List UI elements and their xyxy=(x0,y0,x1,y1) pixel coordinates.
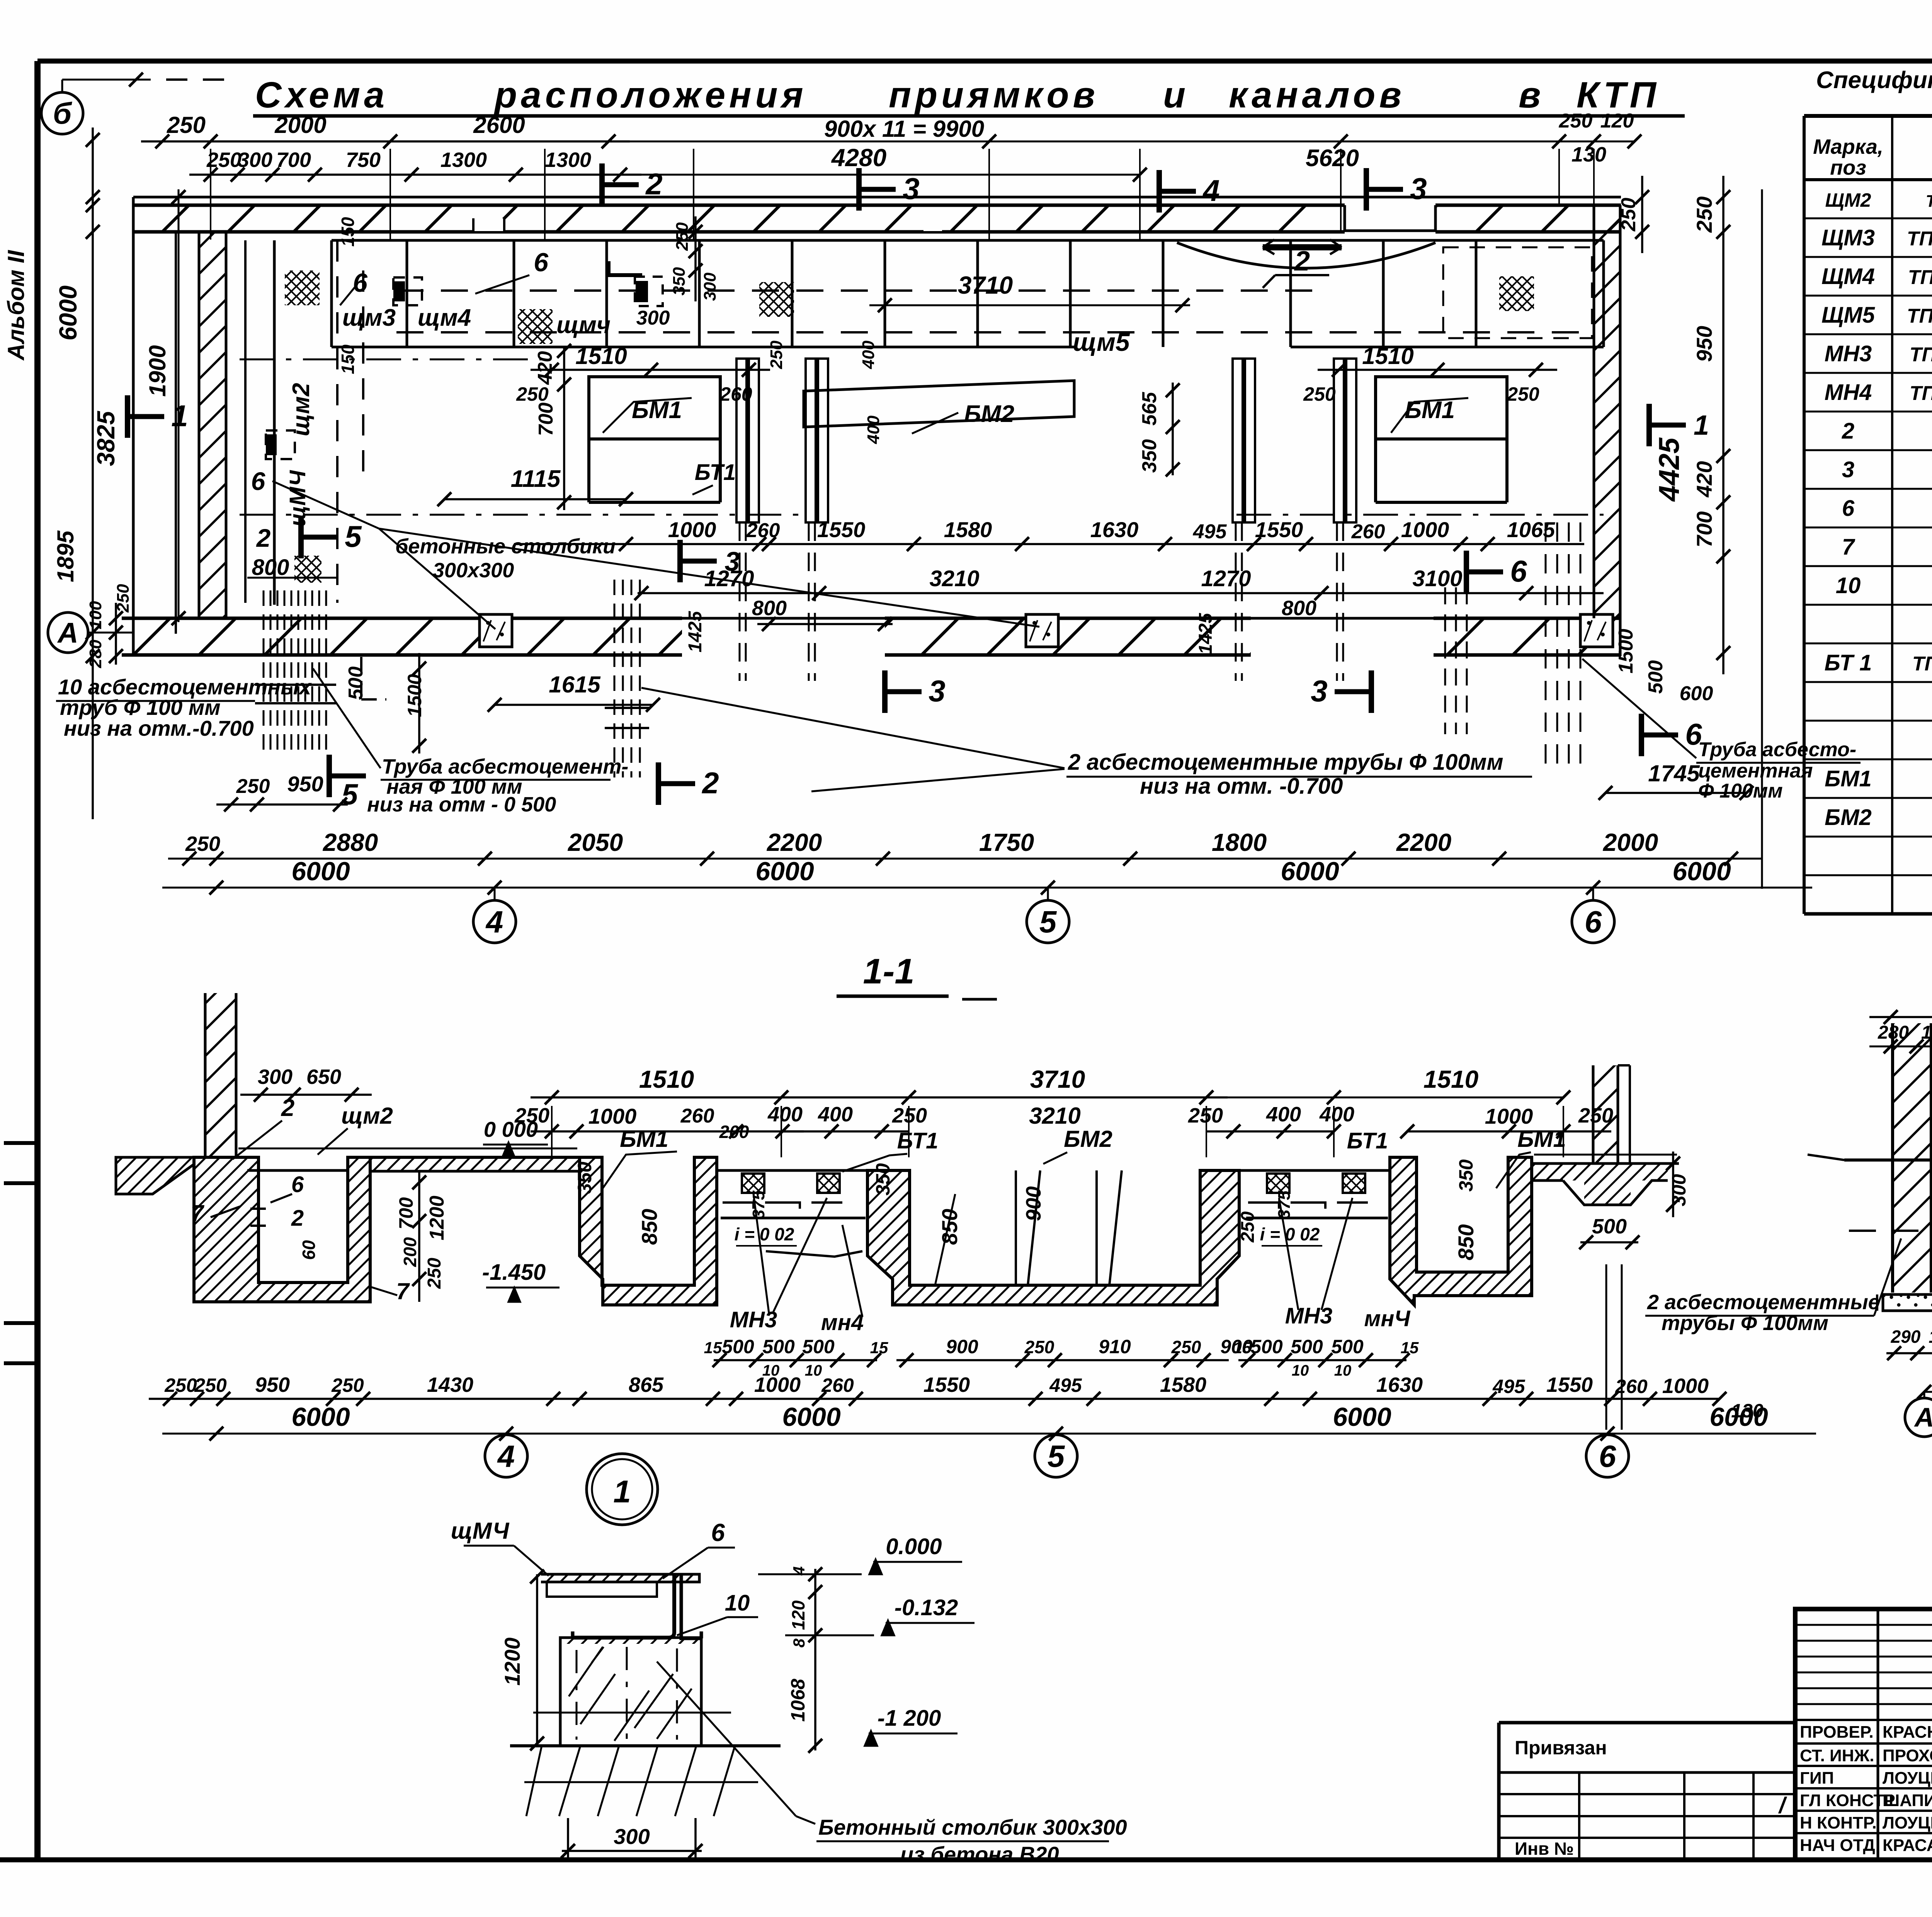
svg-text:250: 250 xyxy=(1171,1337,1201,1357)
svg-text:ЩМ2: ЩМ2 xyxy=(1825,189,1871,211)
svg-text:110: 110 xyxy=(1929,1327,1932,1347)
svg-text:850: 850 xyxy=(637,1209,662,1245)
svg-text:2200: 2200 xyxy=(1396,828,1451,856)
svg-text:260: 260 xyxy=(1615,1376,1648,1397)
svg-text:800: 800 xyxy=(252,555,289,580)
svg-text:500: 500 xyxy=(1250,1336,1283,1357)
svg-text:150: 150 xyxy=(338,344,358,374)
svg-text:6000: 6000 xyxy=(755,857,814,886)
svg-text:щм2: щм2 xyxy=(288,383,315,436)
svg-text:250: 250 xyxy=(331,1374,364,1396)
svg-text:ПРОВЕР.: ПРОВЕР. xyxy=(1800,1723,1874,1742)
svg-text:-1 200: -1 200 xyxy=(878,1706,941,1731)
svg-text:ЩМ4: ЩМ4 xyxy=(1821,264,1875,289)
svg-text:15: 15 xyxy=(1401,1339,1419,1357)
svg-text:300х300: 300х300 xyxy=(433,559,514,582)
svg-text:4: 4 xyxy=(1202,173,1219,208)
svg-text:3210: 3210 xyxy=(929,566,979,591)
svg-text:в: в xyxy=(1519,75,1541,116)
svg-text:700: 700 xyxy=(395,1197,417,1230)
svg-text:б: б xyxy=(53,96,72,130)
svg-text:4425: 4425 xyxy=(1653,437,1685,502)
svg-text:3710: 3710 xyxy=(958,271,1013,299)
svg-text:400: 400 xyxy=(818,1103,853,1126)
svg-text:КРАСАВИН: КРАСАВИН xyxy=(1883,1836,1932,1855)
svg-text:ГЛ КОНСТР: ГЛ КОНСТР xyxy=(1800,1791,1895,1810)
svg-text:щм3: щм3 xyxy=(342,304,396,331)
svg-text:цементная: цементная xyxy=(1698,760,1813,782)
svg-text:900: 900 xyxy=(1022,1186,1045,1221)
svg-text:и: и xyxy=(1163,75,1185,116)
svg-text:250: 250 xyxy=(1188,1104,1223,1127)
svg-text:250: 250 xyxy=(236,775,270,798)
svg-text:500: 500 xyxy=(345,667,367,700)
svg-text:350: 350 xyxy=(574,1162,595,1194)
svg-text:100: 100 xyxy=(86,601,105,629)
svg-text:ТП 902-9-40 86 КЖН БТ1: ТП 902-9-40 86 КЖН БТ1 xyxy=(1912,653,1932,675)
svg-text:низ на отм - 0 500: низ на отм - 0 500 xyxy=(367,793,556,816)
svg-text:420: 420 xyxy=(1692,461,1716,497)
svg-text:1550: 1550 xyxy=(1255,517,1303,542)
svg-text:300: 300 xyxy=(258,1065,293,1089)
svg-text:120: 120 xyxy=(788,1600,808,1630)
svg-text:2 асбестоцементные трубы Ф 100: 2 асбестоцементные трубы Ф 100мм xyxy=(1068,750,1503,775)
svg-text:350: 350 xyxy=(872,1163,894,1196)
svg-text:3: 3 xyxy=(1410,172,1427,206)
svg-text:2880: 2880 xyxy=(323,828,378,856)
svg-text:1425: 1425 xyxy=(685,611,706,652)
svg-text:0.000: 0.000 xyxy=(886,1534,942,1559)
svg-text:щм2: щм2 xyxy=(341,1103,393,1129)
svg-text:мн4: мн4 xyxy=(821,1310,864,1335)
svg-text:200: 200 xyxy=(719,1122,749,1142)
svg-text:БМ2: БМ2 xyxy=(964,401,1014,427)
svg-text:из бетона В20: из бетона В20 xyxy=(900,1842,1059,1866)
svg-text:5: 5 xyxy=(342,778,359,811)
svg-text:5620: 5620 xyxy=(1306,145,1359,172)
svg-text:260: 260 xyxy=(821,1374,854,1396)
svg-text:250: 250 xyxy=(516,383,549,405)
svg-text:1630: 1630 xyxy=(1090,517,1139,542)
svg-text:250: 250 xyxy=(194,1374,227,1396)
svg-text:1750: 1750 xyxy=(979,828,1034,856)
svg-text:700: 700 xyxy=(1692,511,1716,547)
svg-text:500: 500 xyxy=(1331,1336,1364,1357)
svg-text:приямков: приямков xyxy=(889,75,1099,116)
svg-text:5: 5 xyxy=(1048,1439,1065,1473)
svg-text:250: 250 xyxy=(1238,1211,1258,1243)
svg-text:750: 750 xyxy=(346,148,381,172)
svg-text:1510: 1510 xyxy=(1362,343,1413,369)
svg-text:850: 850 xyxy=(937,1209,962,1245)
svg-text:1000: 1000 xyxy=(1662,1374,1709,1398)
svg-text:6: 6 xyxy=(291,1172,304,1197)
svg-text:200: 200 xyxy=(400,1237,420,1267)
svg-text:1900: 1900 xyxy=(145,345,170,396)
svg-text:260: 260 xyxy=(1351,520,1385,543)
svg-text:150: 150 xyxy=(338,217,358,247)
svg-text:6000: 6000 xyxy=(782,1402,840,1432)
svg-text:1200: 1200 xyxy=(500,1638,524,1686)
svg-text:400: 400 xyxy=(1266,1103,1301,1126)
svg-text:А: А xyxy=(57,617,78,649)
svg-text:1: 1 xyxy=(1694,410,1709,441)
svg-text:БМ2: БМ2 xyxy=(1825,805,1872,830)
svg-text:7: 7 xyxy=(1842,534,1855,560)
svg-text:1000: 1000 xyxy=(668,517,716,542)
svg-text:350: 350 xyxy=(1455,1159,1477,1192)
svg-text:-0.132: -0.132 xyxy=(895,1595,958,1620)
svg-text:2: 2 xyxy=(1294,246,1310,277)
svg-text:500: 500 xyxy=(722,1336,754,1357)
svg-text:4: 4 xyxy=(497,1439,515,1473)
svg-text:МН4: МН4 xyxy=(1825,380,1872,405)
svg-text:15: 15 xyxy=(870,1339,888,1357)
svg-text:5: 5 xyxy=(1039,905,1057,939)
svg-text:495: 495 xyxy=(1193,520,1227,543)
svg-text:950: 950 xyxy=(287,772,323,796)
svg-text:300: 300 xyxy=(614,1824,650,1849)
svg-text:1510: 1510 xyxy=(575,343,627,369)
svg-text:950: 950 xyxy=(255,1373,290,1397)
svg-text:500: 500 xyxy=(1291,1336,1323,1357)
svg-text:350: 350 xyxy=(1138,439,1161,473)
svg-text:1065: 1065 xyxy=(1507,517,1555,542)
svg-text:А: А xyxy=(1914,1402,1932,1432)
svg-text:2600: 2600 xyxy=(473,112,525,138)
svg-text:1: 1 xyxy=(613,1474,631,1509)
svg-text:400: 400 xyxy=(767,1103,803,1126)
svg-text:БТ1: БТ1 xyxy=(1347,1128,1388,1153)
svg-text:ТП 902-9-40 86 КЖН МН3: ТП 902-9-40 86 КЖН МН3 xyxy=(1910,382,1932,405)
svg-text:3100: 3100 xyxy=(1412,566,1462,591)
svg-text:3: 3 xyxy=(1311,674,1327,708)
svg-text:400: 400 xyxy=(864,415,883,444)
svg-text:1300: 1300 xyxy=(545,148,591,172)
svg-text:250: 250 xyxy=(164,1374,197,1396)
svg-text:БМ1: БМ1 xyxy=(620,1126,668,1152)
svg-text:15: 15 xyxy=(1233,1339,1252,1357)
svg-text:850: 850 xyxy=(1454,1224,1478,1260)
svg-text:800: 800 xyxy=(1282,597,1316,620)
svg-text:800: 800 xyxy=(752,597,787,620)
svg-text:495: 495 xyxy=(1492,1376,1526,1397)
svg-text:6000: 6000 xyxy=(1709,1402,1768,1432)
svg-text:1000: 1000 xyxy=(1485,1104,1533,1128)
svg-text:250: 250 xyxy=(1617,198,1640,232)
svg-text:565: 565 xyxy=(1138,392,1161,426)
svg-text:1000: 1000 xyxy=(1401,517,1449,542)
svg-text:2: 2 xyxy=(701,766,719,800)
svg-text:700: 700 xyxy=(535,403,557,436)
svg-text:250: 250 xyxy=(1507,383,1539,405)
svg-text:300: 300 xyxy=(238,148,272,172)
svg-text:1425: 1425 xyxy=(1196,612,1216,654)
svg-text:2: 2 xyxy=(291,1206,304,1231)
svg-text:1300: 1300 xyxy=(440,148,487,172)
svg-text:ЩМ3: ЩМ3 xyxy=(1821,225,1875,250)
svg-text:2050: 2050 xyxy=(568,828,623,856)
svg-text:280: 280 xyxy=(86,640,105,668)
svg-text:6: 6 xyxy=(1585,905,1602,939)
svg-text:6: 6 xyxy=(1599,1439,1616,1473)
svg-text:1270: 1270 xyxy=(1201,566,1251,591)
svg-text:10: 10 xyxy=(1334,1362,1352,1379)
svg-text:120: 120 xyxy=(1600,110,1634,132)
svg-text:865: 865 xyxy=(629,1373,664,1397)
svg-text:3710: 3710 xyxy=(1030,1065,1085,1093)
svg-text:400: 400 xyxy=(859,340,878,369)
svg-text:1550: 1550 xyxy=(923,1373,970,1397)
svg-text:2000: 2000 xyxy=(1603,828,1658,856)
svg-text:7: 7 xyxy=(190,1200,204,1226)
svg-text:i = 0 02: i = 0 02 xyxy=(1260,1224,1320,1244)
svg-text:700: 700 xyxy=(276,148,311,172)
svg-text:1550: 1550 xyxy=(1546,1373,1593,1397)
svg-text:4280: 4280 xyxy=(831,144,886,172)
svg-text:Бетонный столбик 300х300: Бетонный столбик 300х300 xyxy=(818,1815,1127,1839)
svg-text:7: 7 xyxy=(396,1278,410,1304)
svg-text:щмч: щмч xyxy=(556,312,611,338)
svg-text:1800: 1800 xyxy=(1212,828,1267,856)
svg-text:1: 1 xyxy=(171,399,188,433)
svg-text:ЛОУЦКЕР: ЛОУЦКЕР xyxy=(1883,1813,1932,1832)
svg-text:500: 500 xyxy=(1592,1215,1627,1238)
svg-text:1000: 1000 xyxy=(588,1104,637,1128)
svg-text:250: 250 xyxy=(1559,110,1593,132)
svg-text:КРАСНОВА: КРАСНОВА xyxy=(1883,1723,1932,1742)
svg-text:6: 6 xyxy=(1510,554,1527,588)
svg-text:6: 6 xyxy=(1842,496,1855,521)
svg-text:910: 910 xyxy=(1099,1336,1131,1357)
svg-text:Инв №: Инв № xyxy=(1515,1839,1574,1859)
svg-text:300: 300 xyxy=(1668,1174,1690,1206)
svg-text:650: 650 xyxy=(306,1065,341,1089)
svg-text:4: 4 xyxy=(485,905,503,939)
svg-text:60: 60 xyxy=(299,1240,319,1260)
svg-text:ТП 902 9 40 86 КЖН ЩМ4: ТП 902 9 40 86 КЖН ЩМ4 xyxy=(1908,266,1932,289)
svg-text:ТП 902-9-40 86 КЖН МН2: ТП 902-9-40 86 КЖН МН2 xyxy=(1910,344,1932,366)
svg-text:ТП 902-9-40 86 КЖН ЩМ3: ТП 902-9-40 86 КЖН ЩМ3 xyxy=(1907,228,1932,250)
svg-text:260: 260 xyxy=(680,1105,714,1127)
svg-text:щМЧ: щМЧ xyxy=(451,1518,510,1544)
svg-text:420: 420 xyxy=(534,351,556,385)
svg-text:БМ2: БМ2 xyxy=(1064,1126,1112,1152)
svg-text:i = 0 02: i = 0 02 xyxy=(735,1224,794,1244)
svg-text:БМ1: БМ1 xyxy=(1517,1126,1566,1152)
svg-text:ГИП: ГИП xyxy=(1800,1769,1834,1788)
svg-text:МН3: МН3 xyxy=(1285,1303,1332,1328)
svg-text:1745: 1745 xyxy=(1648,760,1700,786)
svg-text:МН3: МН3 xyxy=(1825,341,1872,366)
svg-text:1510: 1510 xyxy=(1423,1065,1478,1093)
svg-text:375: 375 xyxy=(1275,1191,1294,1219)
svg-text:1580: 1580 xyxy=(944,517,992,542)
svg-text:2: 2 xyxy=(1842,418,1854,444)
svg-text:8: 8 xyxy=(790,1638,808,1648)
svg-text:250: 250 xyxy=(206,148,241,172)
svg-text:1895: 1895 xyxy=(53,530,78,582)
svg-text:950: 950 xyxy=(1692,326,1716,362)
svg-text:Спецификация элементов к сх: Спецификация элементов к схеме расположе… xyxy=(1816,67,1932,94)
svg-text:0 000: 0 000 xyxy=(484,1117,538,1141)
svg-text:БТ1: БТ1 xyxy=(695,460,736,485)
svg-text:250: 250 xyxy=(673,222,692,251)
svg-text:10: 10 xyxy=(805,1362,822,1379)
svg-text:МН3: МН3 xyxy=(730,1307,777,1332)
svg-text:2000: 2000 xyxy=(274,112,326,138)
svg-text:6: 6 xyxy=(251,467,266,495)
svg-text:расположения: расположения xyxy=(493,75,807,116)
svg-text:1115: 1115 xyxy=(511,466,561,492)
svg-text:каналов: каналов xyxy=(1229,75,1405,116)
svg-text:250: 250 xyxy=(424,1258,445,1289)
svg-text:495: 495 xyxy=(1049,1374,1082,1396)
svg-text:3825: 3825 xyxy=(92,410,120,466)
svg-text:1510: 1510 xyxy=(639,1065,694,1093)
svg-text:6: 6 xyxy=(534,248,549,277)
svg-text:6000: 6000 xyxy=(1672,857,1731,886)
svg-text:6: 6 xyxy=(353,268,368,298)
svg-text:2200: 2200 xyxy=(767,828,822,856)
svg-text:Марка,: Марка, xyxy=(1813,135,1883,158)
svg-text:Н КОНТР.: Н КОНТР. xyxy=(1800,1813,1877,1832)
svg-text:ТП 902-9-40 86 КЖН ЩМ5: ТП 902-9-40 86 КЖН ЩМ5 xyxy=(1907,305,1932,327)
svg-text:10: 10 xyxy=(1292,1362,1309,1379)
svg-text:6: 6 xyxy=(711,1519,725,1546)
svg-text:1615: 1615 xyxy=(549,672,601,697)
svg-text:500: 500 xyxy=(762,1336,795,1357)
svg-text:15: 15 xyxy=(704,1339,722,1357)
svg-text:900: 900 xyxy=(946,1336,978,1357)
svg-text:6000: 6000 xyxy=(1281,857,1339,886)
svg-text:ТП 902-9-40 86 КЖН ЩМ2: ТП 902-9-40 86 КЖН ЩМ2 xyxy=(1926,192,1932,211)
svg-text:1200: 1200 xyxy=(426,1196,448,1240)
svg-text:3210: 3210 xyxy=(1029,1103,1080,1129)
svg-text:3: 3 xyxy=(903,172,919,206)
svg-text:250: 250 xyxy=(1024,1337,1054,1357)
svg-text:низ на отм. -0.700: низ на отм. -0.700 xyxy=(1140,774,1343,799)
svg-text:1500: 1500 xyxy=(1615,629,1637,674)
svg-text:10: 10 xyxy=(1836,573,1861,598)
svg-text:БМ1: БМ1 xyxy=(1825,766,1872,791)
svg-text:НАЧ ОТД: НАЧ ОТД xyxy=(1800,1836,1875,1855)
svg-text:щм4: щм4 xyxy=(418,304,471,331)
svg-text:500: 500 xyxy=(802,1336,835,1357)
svg-text:1068: 1068 xyxy=(787,1679,809,1721)
svg-text:375: 375 xyxy=(749,1191,768,1219)
svg-text:250: 250 xyxy=(1692,196,1716,233)
svg-text:6000: 6000 xyxy=(291,857,350,886)
svg-text:ШАПИРО: ШАПИРО xyxy=(1883,1791,1932,1810)
svg-text:10: 10 xyxy=(725,1590,750,1616)
svg-text:Привязан: Привязан xyxy=(1515,1737,1607,1759)
svg-text:260: 260 xyxy=(746,519,780,542)
svg-text:-1.450: -1.450 xyxy=(482,1260,546,1285)
svg-text:БТ 1: БТ 1 xyxy=(1825,650,1872,675)
svg-text:5: 5 xyxy=(345,519,362,553)
svg-text:6000: 6000 xyxy=(54,286,82,340)
svg-text:Альбом II: Альбом II xyxy=(3,250,29,361)
svg-text:трубы Ф 100мм: трубы Ф 100мм xyxy=(1662,1311,1828,1335)
svg-text:БТ1: БТ1 xyxy=(897,1128,939,1153)
svg-text:600: 600 xyxy=(1680,682,1713,705)
svg-text:6: 6 xyxy=(1685,717,1702,751)
svg-text:2 асбестоцементные: 2 асбестоцементные xyxy=(1647,1291,1880,1314)
svg-text:щМЧ: щМЧ xyxy=(285,469,310,527)
svg-text:поз: поз xyxy=(1830,156,1866,179)
svg-text:6000: 6000 xyxy=(291,1402,350,1432)
svg-text:ЩМ5: ЩМ5 xyxy=(1821,303,1875,328)
svg-text:1430: 1430 xyxy=(427,1373,473,1397)
svg-text:СТ. ИНЖ.: СТ. ИНЖ. xyxy=(1800,1746,1874,1765)
svg-text:1580: 1580 xyxy=(1160,1373,1206,1397)
svg-text:400: 400 xyxy=(1319,1103,1354,1126)
svg-text:бетонные столбики: бетонные столбики xyxy=(395,535,616,558)
svg-text:1-1: 1-1 xyxy=(863,952,915,991)
svg-text:3: 3 xyxy=(725,546,740,577)
svg-text:300: 300 xyxy=(636,307,670,329)
svg-text:250: 250 xyxy=(1303,383,1336,405)
svg-text:130: 130 xyxy=(1571,143,1606,166)
svg-text:290: 290 xyxy=(1891,1327,1921,1347)
svg-text:низ на отм.-0.700: низ на отм.-0.700 xyxy=(64,716,254,740)
svg-text:ПРОХОРОВА: ПРОХОРОВА xyxy=(1883,1746,1932,1765)
svg-text:250: 250 xyxy=(167,112,206,138)
svg-text:250: 250 xyxy=(767,340,786,369)
svg-text:900х 11 = 9900: 900х 11 = 9900 xyxy=(824,116,984,142)
svg-text:Труба асбестоцемент-: Труба асбестоцемент- xyxy=(382,755,628,778)
svg-text:Схема: Схема xyxy=(255,75,388,116)
svg-text:1000: 1000 xyxy=(754,1373,801,1397)
svg-text:250: 250 xyxy=(185,832,220,856)
svg-text:1500: 1500 xyxy=(404,674,425,717)
svg-text:3: 3 xyxy=(1842,457,1854,482)
svg-text:мнЧ: мнЧ xyxy=(1364,1306,1411,1331)
svg-text:ЛОУЦКЕР: ЛОУЦКЕР xyxy=(1883,1769,1932,1788)
svg-text:2: 2 xyxy=(281,1095,294,1121)
svg-text:6000: 6000 xyxy=(1333,1402,1391,1432)
svg-text:500: 500 xyxy=(1645,660,1667,694)
svg-text:Труба асбесто-: Труба асбесто- xyxy=(1698,738,1856,761)
svg-text:3: 3 xyxy=(929,674,945,708)
svg-text:300: 300 xyxy=(701,272,719,301)
svg-text:1630: 1630 xyxy=(1376,1373,1423,1397)
svg-text:1550: 1550 xyxy=(817,517,866,542)
svg-text:2: 2 xyxy=(256,524,271,552)
